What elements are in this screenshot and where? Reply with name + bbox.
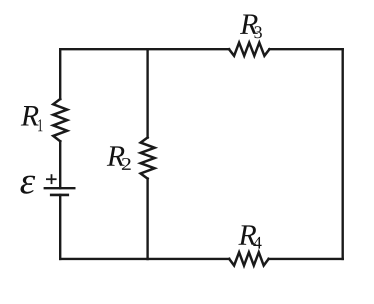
wire R1-to-battery segment: [59, 141, 61, 188]
wire top-left segment: [60, 48, 147, 50]
wire bottom-right segment: [269, 258, 343, 260]
battery EMF positive plate: [45, 187, 75, 189]
label R1 subscript 1: [38, 119, 42, 131]
wire right side: [342, 49, 344, 259]
wire left-top segment: [59, 49, 61, 99]
plus polarity mark: [46, 174, 57, 184]
label R3 letter R: [240, 14, 258, 33]
label R4 subscript 4: [253, 237, 261, 249]
resistor R4: [229, 252, 268, 265]
resistor R2: [141, 138, 155, 179]
wire top-middle segment: [148, 48, 229, 50]
wire bottom-middle segment: [148, 258, 230, 260]
label EMF script epsilon: [20, 176, 35, 194]
wire middle-top segment: [146, 49, 148, 137]
label R3 subscript 3: [254, 26, 261, 38]
wire bottom-left segment: [60, 258, 147, 260]
resistor R1: [53, 99, 67, 141]
label R2 letter R: [107, 146, 125, 165]
label R4 letter R: [238, 225, 256, 244]
wire top-right segment: [269, 48, 342, 50]
resistor R3: [229, 43, 269, 56]
wire battery-to-bottom segment: [59, 195, 61, 259]
label R1 letter R: [21, 106, 39, 125]
wire middle-bottom segment: [146, 179, 148, 259]
label R2 subscript 2: [122, 158, 131, 170]
battery EMF negative plate: [51, 194, 68, 197]
